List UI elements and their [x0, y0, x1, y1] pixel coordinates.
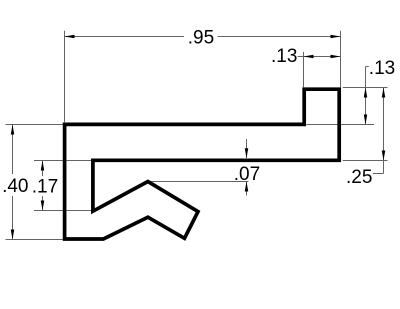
- svg-text:.13: .13: [271, 46, 297, 67]
- svg-text:.95: .95: [188, 27, 214, 48]
- svg-text:.13: .13: [369, 58, 395, 79]
- svg-text:.25: .25: [346, 167, 372, 188]
- svg-text:.40: .40: [2, 176, 28, 197]
- svg-text:.17: .17: [32, 176, 58, 197]
- svg-text:.07: .07: [234, 164, 260, 185]
